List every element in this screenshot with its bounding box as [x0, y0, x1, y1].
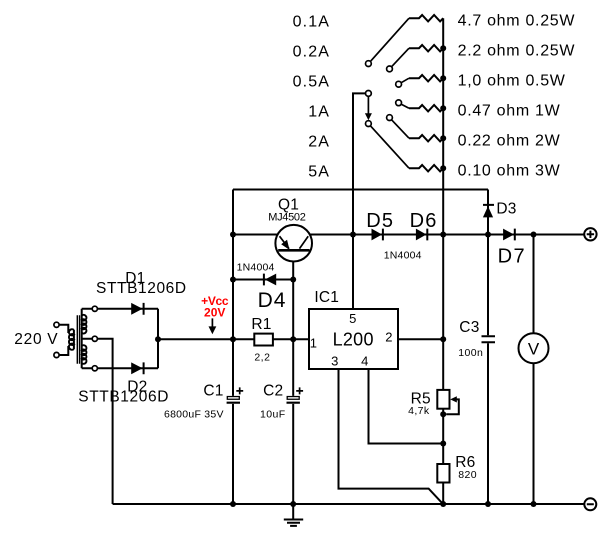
- svg-text:0.10 ohm 3W: 0.10 ohm 3W: [458, 163, 561, 180]
- svg-text:220 V: 220 V: [14, 331, 58, 348]
- svg-text:4.7 ohm 0.25W: 4.7 ohm 0.25W: [458, 13, 576, 30]
- svg-text:MJ4502: MJ4502: [268, 211, 306, 223]
- svg-text:D5: D5: [366, 210, 394, 232]
- svg-text:4,7k: 4,7k: [408, 405, 430, 417]
- svg-text:2A: 2A: [308, 134, 330, 151]
- svg-text:1,0 ohm 0.5W: 1,0 ohm 0.5W: [458, 73, 566, 90]
- svg-text:L200: L200: [333, 329, 374, 349]
- svg-text:5A: 5A: [308, 164, 330, 181]
- svg-text:1N4004: 1N4004: [384, 250, 422, 262]
- svg-text:1N4004: 1N4004: [237, 262, 275, 274]
- svg-text:R1: R1: [251, 316, 271, 333]
- svg-text:20V: 20V: [204, 305, 225, 319]
- svg-text:820: 820: [458, 469, 477, 481]
- svg-text:C2: C2: [263, 382, 283, 399]
- svg-text:2,2: 2,2: [254, 351, 270, 363]
- svg-text:V: V: [528, 340, 540, 359]
- svg-text:0.47 ohm 1W: 0.47 ohm 1W: [458, 103, 561, 120]
- svg-text:C1: C1: [203, 382, 223, 399]
- svg-text:10uF: 10uF: [260, 409, 286, 421]
- svg-text:D7: D7: [498, 246, 527, 268]
- svg-text:4: 4: [361, 353, 368, 368]
- svg-text:0.5A: 0.5A: [293, 74, 330, 91]
- svg-text:100n: 100n: [458, 347, 483, 359]
- svg-text:6800uF 35V: 6800uF 35V: [164, 409, 224, 421]
- svg-text:1: 1: [310, 336, 317, 351]
- svg-text:D3: D3: [496, 201, 516, 218]
- svg-text:2: 2: [385, 330, 392, 345]
- svg-text:0.2A: 0.2A: [293, 44, 330, 61]
- svg-text:0.1A: 0.1A: [293, 14, 330, 31]
- svg-text:STTB1206D: STTB1206D: [96, 280, 187, 297]
- svg-text:IC1: IC1: [314, 289, 339, 306]
- svg-text:1A: 1A: [308, 104, 330, 121]
- svg-text:D6: D6: [410, 210, 438, 232]
- svg-text:2.2 ohm 0.25W: 2.2 ohm 0.25W: [458, 43, 576, 60]
- svg-text:C3: C3: [459, 319, 479, 336]
- svg-text:STTB1206D: STTB1206D: [78, 389, 169, 406]
- svg-text:0.22 ohm 2W: 0.22 ohm 2W: [458, 133, 561, 150]
- svg-text:3: 3: [331, 353, 338, 368]
- svg-text:5: 5: [349, 311, 356, 326]
- svg-text:D4: D4: [258, 289, 287, 312]
